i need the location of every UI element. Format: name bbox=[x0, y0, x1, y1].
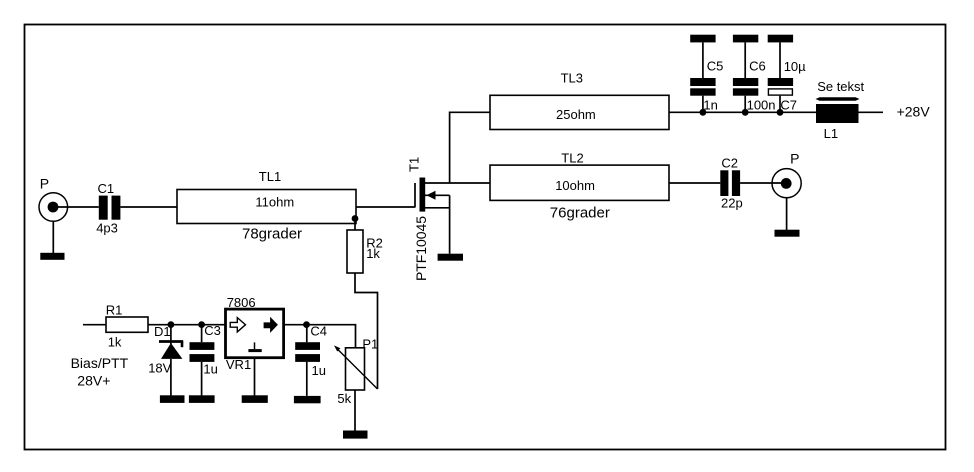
ground (VR1) bbox=[242, 395, 268, 403]
svg-text:C3: C3 bbox=[204, 323, 221, 338]
svg-text:10ohm: 10ohm bbox=[555, 178, 595, 193]
node D1 bbox=[168, 321, 175, 328]
wire P to C1 bbox=[53, 206, 99, 208]
svg-text:Bias/PTT: Bias/PTT bbox=[71, 355, 129, 371]
svg-text:1k: 1k bbox=[366, 246, 380, 261]
svg-text:22p: 22p bbox=[721, 196, 743, 211]
svg-text:P1: P1 bbox=[362, 337, 378, 352]
wire P to ground bbox=[52, 221, 54, 253]
node C7 bbox=[777, 109, 784, 116]
svg-text:TL3: TL3 bbox=[561, 70, 583, 85]
svg-text:7806: 7806 bbox=[227, 295, 256, 310]
svg-text:11ohm: 11ohm bbox=[255, 195, 294, 210]
inductor L1 bbox=[816, 104, 859, 123]
wire source to ground bbox=[449, 195, 451, 253]
connector P (output, right) bbox=[772, 169, 801, 198]
transmission line TL1 bbox=[177, 190, 356, 224]
transistor T1 bbox=[415, 178, 450, 212]
capacitor C2 bbox=[720, 170, 740, 196]
svg-text:TL2: TL2 bbox=[561, 151, 583, 166]
wire TL2 to C2 bbox=[669, 182, 720, 184]
wire drain to TL2 bbox=[425, 182, 490, 184]
wire TL3 to L1 (+28V rail) bbox=[669, 111, 816, 113]
svg-text:C1: C1 bbox=[98, 181, 115, 196]
wire C2 to P (output) bbox=[740, 182, 787, 184]
svg-text:100n: 100n bbox=[747, 98, 776, 113]
capacitor C1 bbox=[99, 196, 121, 220]
potentiometer P1 bbox=[346, 348, 365, 390]
node C3 bbox=[198, 321, 205, 328]
resistor R1 bbox=[106, 317, 148, 332]
wire VR1 gnd pin to ground bbox=[254, 358, 256, 396]
connector P (input, left) bbox=[39, 193, 68, 222]
svg-text:C7: C7 bbox=[780, 98, 797, 113]
svg-text:T1: T1 bbox=[407, 157, 422, 172]
input arrow (VR1) bbox=[230, 318, 245, 332]
node C6 bbox=[742, 109, 749, 116]
wire drain to TL3 bbox=[450, 112, 490, 183]
node C4 bbox=[303, 321, 310, 328]
node R2 tap bbox=[352, 215, 359, 222]
svg-text:C5: C5 bbox=[707, 58, 724, 73]
wire P1 to ground bbox=[354, 390, 356, 431]
zener diode D1 bbox=[159, 325, 183, 359]
svg-text:Se tekst: Se tekst bbox=[817, 79, 864, 94]
svg-text:C4: C4 bbox=[310, 324, 327, 339]
svg-text:1u: 1u bbox=[312, 363, 326, 378]
wire P to ground (output) bbox=[786, 198, 788, 230]
svg-text:D1: D1 bbox=[154, 324, 171, 339]
ground (C4) bbox=[294, 396, 321, 403]
marker arrow (Se tekst) bbox=[816, 97, 860, 101]
wire TL1 to gate bbox=[356, 206, 415, 208]
capacitor C6 bbox=[733, 35, 758, 113]
svg-text:R1: R1 bbox=[106, 302, 123, 317]
wire node to R2 bbox=[354, 219, 356, 231]
wire VR1 out to P1 bbox=[284, 325, 356, 348]
wire R1 to VR1 bbox=[148, 324, 226, 326]
wire L1 to +28V bbox=[859, 111, 884, 113]
capacitor C7 (electrolytic) bbox=[768, 35, 793, 113]
svg-text:+28V: +28V bbox=[897, 103, 931, 119]
svg-text:10µ: 10µ bbox=[784, 59, 806, 74]
svg-text:VR1: VR1 bbox=[226, 357, 251, 372]
resistor R2 bbox=[347, 230, 363, 273]
svg-text:C2: C2 bbox=[721, 156, 738, 171]
ground (input P) bbox=[40, 253, 64, 260]
svg-text:1k: 1k bbox=[108, 335, 122, 350]
output arrow (VR1) bbox=[264, 317, 278, 333]
capacitor C4 bbox=[295, 325, 320, 396]
ground (P1) bbox=[343, 431, 368, 439]
wire R2 to P1 wiper bbox=[355, 273, 378, 389]
transmission line TL2 bbox=[490, 165, 669, 200]
wiper arrow (P1) bbox=[334, 345, 378, 389]
svg-text:4p3: 4p3 bbox=[96, 220, 118, 235]
svg-text:5k: 5k bbox=[337, 391, 351, 406]
svg-text:1u: 1u bbox=[203, 362, 217, 377]
node C5 bbox=[700, 109, 707, 116]
svg-text:28V+: 28V+ bbox=[77, 372, 110, 388]
svg-text:P: P bbox=[40, 176, 49, 192]
ground (output P) bbox=[775, 230, 800, 237]
svg-text:PTF10045: PTF10045 bbox=[413, 216, 429, 281]
wire bias input bbox=[83, 324, 106, 326]
svg-text:18V: 18V bbox=[148, 361, 171, 376]
wire D1 to ground bbox=[170, 359, 172, 396]
transmission line TL3 bbox=[490, 95, 669, 129]
svg-text:78grader: 78grader bbox=[242, 226, 302, 243]
svg-text:25ohm: 25ohm bbox=[556, 107, 596, 122]
wire C1 to TL1 bbox=[120, 206, 177, 208]
svg-text:P: P bbox=[790, 150, 799, 166]
regulator VR1 7806 bbox=[226, 309, 284, 358]
ground (D1) bbox=[160, 395, 185, 403]
svg-text:C6: C6 bbox=[749, 58, 766, 73]
capacitor C5 bbox=[690, 35, 715, 113]
ground (T1 source) bbox=[438, 254, 463, 261]
svg-text:L1: L1 bbox=[824, 126, 838, 141]
svg-text:76grader: 76grader bbox=[550, 205, 610, 222]
gnd pin symbol (VR1) bbox=[248, 342, 261, 352]
capacitor C3 bbox=[190, 325, 215, 396]
ground (C3) bbox=[189, 395, 215, 403]
svg-text:TL1: TL1 bbox=[259, 169, 281, 184]
